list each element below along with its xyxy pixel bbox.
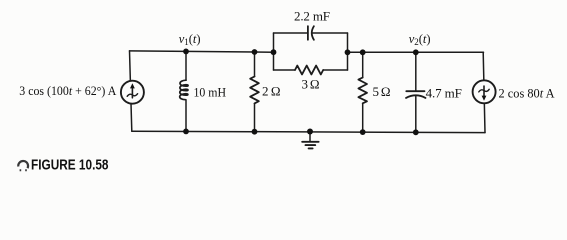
node dot v2 cap top [413,49,419,55]
wire top left segment [130,51,274,52]
wire resistor R 2ohm bottom lead [254,103,256,131]
svg-text:3 Ω: 3 Ω [302,77,320,92]
current source I1 arrow [131,86,133,97]
capacitor C 4.7mF curved plate [406,95,426,98]
ground symbol bars [302,141,318,143]
node dot 5ohm top [360,49,366,55]
wire capacitor C 4.7mF bottom lead [415,97,417,133]
wire bottom [132,131,485,132]
svg-text:FIGURE 10.58: FIGURE 10.58 [31,157,109,174]
svg-text:2 cos 80t A: 2 cos 80t A [499,85,556,100]
capacitor C 4.7mF flat plate [406,90,424,92]
wire box top branch right [312,32,347,34]
resistor R 2ohm zigzag [250,77,259,104]
wire capacitor C 4.7mF top lead [415,52,417,91]
node dot 2ohm bottom [252,129,258,135]
svg-text:3 cos (100t + 62°) A: 3 cos (100t + 62°) A [19,83,117,98]
wire box bottom branch left [274,69,296,71]
wire box right edge [347,33,349,70]
wire left vertical [130,51,132,131]
wire box left edge [273,33,275,70]
resistor R 5ohm zigzag [358,78,367,104]
wire top right segment [348,51,484,53]
inductor L1 coil 10 mH [180,80,188,100]
capacitor C 2.2mF curved plate [312,26,314,40]
resistor R 3ohm zigzag [295,66,323,75]
wire ground stub [309,132,311,142]
wire inductor branch top lead [185,51,187,80]
caption icon [18,161,28,170]
current source I2 arrowhead [482,96,487,101]
svg-text:10 mH: 10 mH [194,84,227,99]
node dot ground [307,129,313,135]
node dot 2ohm top [252,49,258,55]
capacitor C 2.2mF flat plate [307,26,309,40]
wire box top branch left [274,32,308,34]
svg-text:5 Ω: 5 Ω [373,84,391,99]
wire right vertical [483,52,485,132]
current source I1 arrowhead [130,83,135,88]
node dot v1 inductor top [183,49,189,55]
node dot cap bottom [413,129,419,135]
wire box bottom branch right [323,69,347,71]
svg-text:2 Ω: 2 Ω [262,83,281,98]
node dot box left [271,49,277,55]
node dot 5ohm bottom [360,129,366,135]
svg-text:v2(t): v2(t) [409,32,431,47]
current source I2 circle [473,80,496,103]
wire resistor R 2ohm top lead [254,52,256,77]
svg-text:2.2 mF: 2.2 mF [294,9,330,24]
node dot inductor bottom [183,129,189,135]
current source I2 arrow [483,86,485,97]
wire resistor R 5ohm top lead [362,52,364,77]
wire resistor R 5ohm bottom lead [362,103,364,132]
wire inductor branch bottom lead [185,100,187,132]
current source I1 circle [121,81,144,104]
svg-text:4.7 mF: 4.7 mF [426,85,462,100]
svg-text:v1(t): v1(t) [179,32,201,47]
node dot box right [345,49,351,55]
